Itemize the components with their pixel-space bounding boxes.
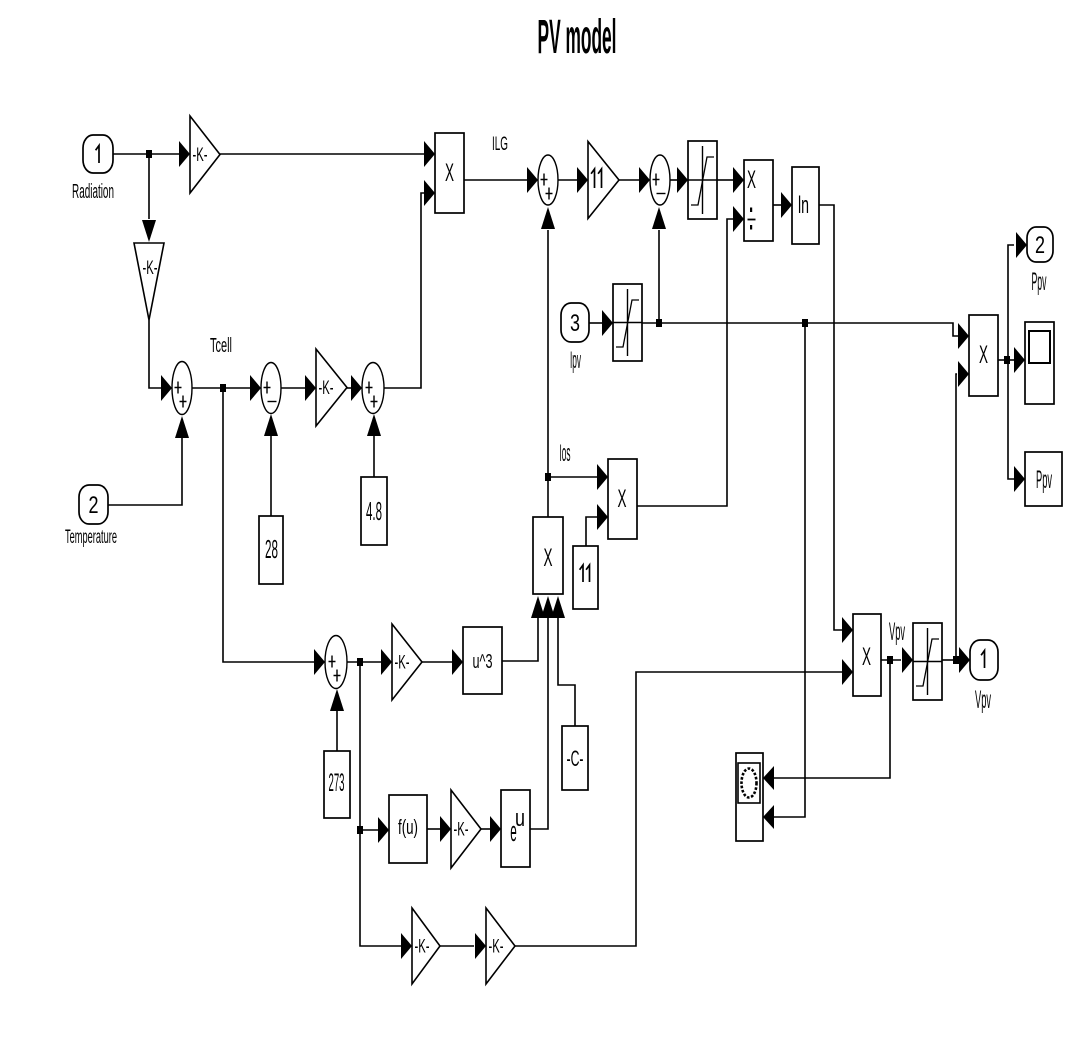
sum S5 +- — [650, 155, 670, 205]
product ILG (X) — [435, 133, 464, 213]
svg-text:Ppv: Ppv — [1036, 465, 1052, 493]
wire gain K7 to product P5 in2 — [515, 659, 853, 946]
wire f(u) to gain K5 — [427, 816, 451, 842]
gain K6 -K- — [412, 908, 440, 984]
wire u^3 to product P3 in1 — [502, 596, 545, 661]
wire e^u to product P3 in2 — [530, 596, 555, 829]
svg-text:-K-: -K- — [143, 258, 158, 279]
constant 28 — [259, 516, 283, 584]
svg-text:ILG: ILG — [492, 134, 508, 155]
wire gain K6 to gain K7 — [440, 933, 486, 959]
svg-text:-K-: -K- — [454, 820, 469, 841]
title text 'PV model' — [538, 9, 617, 64]
label Vpv outport — [975, 685, 991, 713]
wire product P3 up to sum S4 and product P4 — [541, 207, 608, 517]
svg-text:f(u): f(u) — [398, 816, 418, 838]
wire -C- to product P3 in3 — [551, 596, 575, 726]
svg-text:X: X — [979, 342, 988, 369]
label Radiation — [72, 180, 114, 203]
gain K4 -K- — [392, 624, 422, 700]
junction node A — [146, 150, 152, 158]
svg-text:X: X — [543, 545, 552, 572]
math block u^3 — [463, 627, 502, 694]
wire node H up to product P2 in2 — [956, 361, 969, 657]
label Temperature — [65, 526, 117, 548]
wire node I up to outport Ppv — [1008, 232, 1027, 357]
wire product P4 to divide block divisor — [637, 206, 744, 506]
wire node A down to gain K2 — [142, 157, 156, 242]
wire SAT2 to product P2 in1 (long Ipv line) — [642, 323, 969, 349]
ln block — [792, 167, 819, 244]
wire node Tcell down to sum S6 — [223, 391, 325, 675]
wire sum S2 to gain K3 — [281, 375, 316, 401]
product P3 (X, 3 inputs) — [533, 517, 563, 594]
svg-text:3: 3 — [570, 311, 580, 337]
svg-text:Vpv: Vpv — [975, 685, 991, 713]
saturation SAT2 — [613, 284, 642, 361]
wire const 11 to product P4 in2 — [586, 504, 608, 546]
svg-text:PV model: PV model — [538, 9, 617, 64]
svg-text:Ipv: Ipv — [570, 347, 581, 374]
svg-text:Ios: Ios — [559, 440, 570, 467]
wire gain G11 to sum S5 — [619, 167, 650, 193]
label Ppv outport — [1032, 267, 1047, 295]
wire const 4.8 to sum S3 — [367, 414, 381, 477]
product P4 (X) — [608, 459, 637, 539]
svg-text:X: X — [747, 167, 756, 194]
wire product P2 output — [998, 347, 1025, 373]
junction node I — [1004, 356, 1010, 364]
wire gain K5 to exp block — [481, 816, 501, 842]
inport 2 — [79, 485, 108, 524]
junction node D — [545, 473, 551, 481]
wire node C down to display D1 in2 — [763, 326, 805, 829]
gain G11 (11) — [588, 142, 619, 219]
wire node B up to sum S5 minus — [652, 207, 666, 320]
wire gain K2 to sum S1 — [149, 320, 172, 401]
constant 4.8 — [361, 477, 387, 545]
gain K3 -K- — [316, 349, 347, 426]
wire sum S5 to saturation SAT1 — [670, 167, 688, 193]
svg-text:2: 2 — [1035, 233, 1045, 259]
wire divide to ln block — [773, 192, 792, 218]
to-workspace Ppv — [1025, 452, 1062, 506]
wire sum S3 to product ILG in2 — [384, 180, 435, 388]
svg-text:Temperature: Temperature — [65, 526, 117, 548]
svg-text:X: X — [862, 644, 871, 671]
scope block — [1025, 322, 1054, 404]
svg-text:-C-: -C- — [566, 746, 583, 771]
product P2 (X) — [969, 315, 998, 396]
svg-text:u: u — [515, 806, 525, 832]
svg-text:-K-: -K- — [193, 145, 208, 166]
math block e^u — [501, 790, 530, 867]
saturation SAT1 — [688, 141, 717, 219]
label Ios — [559, 440, 570, 467]
outport 1 Vpv — [970, 640, 998, 680]
svg-text:-K-: -K- — [415, 937, 430, 958]
wire sum S1 to sum S2 — [192, 375, 261, 401]
junction node Tcell — [220, 384, 226, 392]
constant -C- — [562, 726, 588, 790]
constant 11 — [573, 546, 598, 609]
sum S3 ++ — [362, 363, 384, 414]
label Vpv — [889, 617, 905, 645]
svg-text:4.8: 4.8 — [366, 498, 382, 526]
product P5 (X) — [853, 614, 881, 696]
sum S2 +- — [261, 363, 281, 414]
svg-text:-K-: -K- — [319, 378, 334, 399]
sum S1 ++ — [172, 362, 192, 415]
svg-text:Ppv: Ppv — [1032, 267, 1047, 295]
gain K7 -K- — [486, 908, 515, 984]
wire inport3 to saturation SAT2 — [589, 310, 613, 336]
svg-text:X: X — [617, 486, 626, 513]
wire gain K3 to sum S3 — [347, 375, 362, 401]
inport 3 — [561, 303, 589, 342]
svg-text:273: 273 — [329, 770, 345, 798]
outport 2 Ppv — [1027, 227, 1053, 262]
svg-text:Vpv: Vpv — [889, 617, 905, 645]
wire sum S4 to gain G11 — [558, 167, 588, 193]
junction node C — [802, 319, 808, 327]
wire gain K4 to u^3 block — [422, 649, 463, 675]
svg-text:Radiation: Radiation — [72, 180, 114, 203]
wire sum S6 to gain K4 — [347, 649, 392, 675]
sum S6 ++ — [325, 636, 347, 689]
wire node G down to display D1 in1 — [763, 663, 890, 790]
wire ln to product P5 in1 — [819, 205, 853, 643]
junction node H — [953, 656, 959, 664]
saturation SAT3 — [913, 623, 942, 700]
wire SAT3 to outport Vpv — [942, 647, 970, 673]
wire node I down to workspace Ppv — [1008, 363, 1025, 492]
junction node B — [656, 319, 662, 327]
display block D1 — [736, 753, 763, 841]
svg-text:-K-: -K- — [395, 653, 410, 674]
svg-text:ln: ln — [798, 192, 809, 219]
wire const 28 to sum S2 — [264, 414, 278, 516]
wire product P5 to saturation SAT3 — [881, 647, 913, 673]
junction node G — [887, 656, 893, 664]
svg-text:-K-: -K- — [489, 937, 504, 958]
constant 273 — [324, 751, 350, 818]
gain K1 -K- — [190, 116, 220, 193]
svg-text:X: X — [445, 160, 454, 187]
wire inport2 to sum S1 — [108, 416, 189, 505]
sum S4 ++ — [538, 155, 558, 205]
svg-text:u^3: u^3 — [473, 650, 493, 673]
wire gain K1 to product ILG in1 — [220, 141, 435, 167]
svg-text:Tcell: Tcell — [210, 335, 232, 357]
wire const 273 to sum S6 — [330, 689, 344, 751]
junction node E — [357, 658, 363, 666]
gain K5 -K- — [451, 790, 481, 868]
svg-text:2: 2 — [88, 493, 98, 519]
label ILG — [492, 134, 508, 155]
wire node F to f(u) — [360, 817, 389, 843]
svg-text:28: 28 — [265, 536, 278, 564]
wire SAT1 to divide block — [717, 167, 744, 193]
junction node F — [357, 826, 363, 834]
wire inport1 to gain K1 — [113, 141, 190, 167]
label Tcell — [210, 335, 232, 357]
wire product ILG to sum S4 — [464, 167, 538, 193]
fcn block f(u) — [389, 795, 427, 863]
inport 1 — [83, 135, 113, 173]
label Ipv — [570, 347, 581, 374]
gain K2 -K- (down) — [134, 243, 164, 320]
divide block X/ — [744, 160, 773, 241]
wire node E down to f(u) row and bottom row — [360, 665, 412, 959]
